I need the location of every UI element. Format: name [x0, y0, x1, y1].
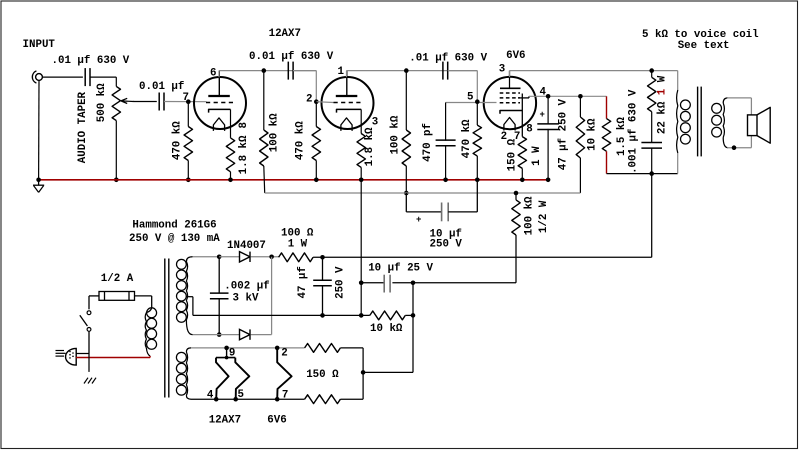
label C2 value — [139, 81, 184, 93]
label See text — [678, 40, 730, 52]
resistor R7 1.8 kOhm cathode V1b — [357, 109, 365, 179]
label fuse 1/2 A — [101, 273, 134, 285]
capacitor C7 .001 uf 630 V snubber — [641, 143, 662, 174]
label C8 3 kV — [233, 293, 259, 305]
wire humdinger to bias node — [363, 371, 413, 373]
label C7 value — [628, 89, 640, 174]
node INPUT label — [23, 39, 56, 51]
label 150 Ohm heater — [306, 369, 339, 381]
svg-text:22 kΩ 1 W: 22 kΩ 1 W — [657, 75, 669, 134]
wire C3 to V1b grid — [293, 71, 316, 102]
junction pin2 heater — [275, 346, 280, 351]
plate V2 — [500, 71, 521, 89]
junction 6V6 grid node — [475, 99, 480, 104]
svg-text:47 μf 250 V: 47 μf 250 V — [558, 98, 570, 170]
label C11 250 V — [430, 239, 463, 251]
wire D1 to B+ junction — [251, 256, 279, 258]
junction R8-ground — [475, 178, 480, 183]
wire CT rail — [193, 314, 370, 316]
svg-text:5: 5 — [467, 92, 473, 104]
junction R4-ground — [228, 178, 233, 183]
label R15 10 kOhm — [370, 323, 403, 335]
resistor R9 150 Ohm cathode 6V6 — [518, 94, 526, 180]
svg-text:10 μf 25 V: 10 μf 25 V — [368, 263, 433, 275]
svg-text:8: 8 — [526, 124, 532, 136]
wire secondary bottom to speaker — [727, 136, 751, 148]
label C6 plus — [540, 110, 545, 120]
connector J1 input jack — [32, 71, 42, 83]
label C6 47 uf 250 V — [558, 98, 570, 170]
plug P1 AC mains — [56, 348, 77, 365]
label 5 kOhm to voice coil — [642, 29, 759, 41]
svg-text:1.8 kΩ: 1.8 kΩ — [238, 135, 250, 174]
wire plug hot (black cord) — [76, 353, 89, 355]
diode D2 1N4007 — [240, 329, 251, 339]
wire secondary top to speaker — [727, 98, 751, 115]
label C9 250 V — [335, 266, 347, 299]
label R9 1 W — [531, 146, 543, 166]
label pin 5 V2 — [467, 92, 473, 104]
resistor R11 1.5 kOhm screen dropping (red leads) — [602, 96, 610, 173]
junction C5-ground — [443, 178, 448, 183]
wiper arrow R1 — [121, 98, 134, 103]
svg-text:10 kΩ: 10 kΩ — [586, 118, 598, 151]
wire 6V6 plate to rail — [509, 71, 511, 77]
junction C6-ground — [546, 178, 551, 183]
svg-text:1.8 kΩ: 1.8 kΩ — [364, 127, 376, 166]
svg-text:3: 3 — [499, 64, 505, 76]
junction R10 top — [578, 94, 583, 99]
junction pin7 — [275, 397, 280, 402]
label pin 5 heater — [238, 389, 244, 401]
junction humdinger center — [361, 370, 366, 375]
junction pin5 — [233, 397, 238, 402]
label C1 value — [52, 55, 130, 67]
transformer T1 core — [165, 259, 169, 398]
wire R17 to center — [340, 372, 363, 399]
label R14 1 W — [288, 239, 308, 251]
svg-text:6V6: 6V6 — [506, 50, 525, 62]
label C11 10 uf — [430, 229, 462, 241]
wire R16 to center — [340, 348, 363, 373]
wire grid node into V1b — [316, 101, 333, 104]
junction .002 top — [217, 254, 222, 259]
svg-text:100 kΩ: 100 kΩ — [268, 113, 280, 152]
transformer T1 filament winding — [176, 348, 191, 399]
chassis ground symbol — [83, 378, 97, 384]
svg-text:See text: See text — [678, 40, 730, 52]
transformer T1 HV secondary — [177, 257, 193, 335]
label pin 4 V2 — [540, 87, 547, 99]
svg-text:6V6: 6V6 — [267, 415, 286, 427]
wire C1 to pot top — [90, 77, 116, 86]
junction R15 node — [411, 313, 416, 318]
diode D1 1N4007 — [240, 252, 251, 262]
svg-text:10 kΩ: 10 kΩ — [370, 323, 403, 335]
wire R15 to node — [405, 314, 413, 316]
junction secondary bottom — [732, 145, 737, 150]
wire C2 to V1a grid — [164, 101, 207, 103]
junction R2-ground — [186, 178, 191, 183]
label pin 4 heater — [207, 390, 214, 402]
resistor R12 22 kOhm 1 W snubber — [648, 71, 656, 143]
svg-text:470 kΩ: 470 kΩ — [461, 119, 473, 158]
junction pin4 — [214, 397, 219, 402]
label pin 2 V1b — [306, 93, 312, 105]
svg-text:.001 μf 630 V: .001 μf 630 V — [628, 89, 640, 174]
wire HV top lead — [193, 256, 220, 258]
resistor R4 1.8 kOhm cathode V1a — [226, 109, 234, 179]
resistor R17 150 Ohm humdinger bottom — [305, 395, 341, 404]
label C8 .002 uf — [224, 281, 269, 293]
wire heater top lead — [191, 347, 305, 349]
label C3 value — [249, 51, 334, 63]
screen wire V2 — [518, 96, 529, 98]
junction R7-ground — [359, 178, 364, 183]
junction R12 top — [649, 68, 654, 73]
svg-text:1 W: 1 W — [288, 239, 308, 251]
junction pot-ground — [114, 178, 119, 183]
svg-text:100 kΩ: 100 kΩ — [389, 115, 401, 154]
wire HV top to D1 — [219, 256, 239, 258]
svg-text:250 V @ 130 mA: 250 V @ 130 mA — [129, 233, 220, 245]
svg-text:AUDIO TAPER: AUDIO TAPER — [77, 91, 89, 163]
label R10 10 kOhm — [586, 118, 598, 151]
svg-text:250 V: 250 V — [335, 266, 347, 299]
svg-text:INPUT: INPUT — [23, 39, 56, 51]
wire B+ to OPT bottom — [607, 173, 678, 175]
label R3 100 kOhm — [268, 113, 280, 152]
transformer T2 core — [698, 87, 702, 157]
wire pot to ground bus — [115, 121, 117, 180]
wire plug neutral (red cord) — [76, 357, 150, 359]
resistor R16 150 Ohm humdinger top — [305, 344, 341, 353]
resistor R5 470 kOhm grid leak V1b — [312, 102, 320, 180]
label C11 plus — [416, 215, 421, 225]
junction V1b grid node — [314, 99, 319, 104]
resistor R6 100 kOhm plate load V1b — [402, 71, 410, 193]
label pin 9 — [229, 348, 235, 360]
junction C7 bottom / B+ node — [649, 171, 654, 176]
fuse F1 1/2 A — [89, 292, 152, 301]
wire ground drop — [360, 180, 362, 316]
label pin 6 V1a — [210, 67, 216, 79]
svg-text:6: 6 — [210, 67, 216, 79]
junction 100k half W top — [514, 191, 519, 196]
svg-text:250 V: 250 V — [430, 239, 463, 251]
label pin 3 V2 — [499, 64, 505, 76]
wire jack to ground — [38, 80, 40, 179]
svg-text:1.5 kΩ: 1.5 kΩ — [616, 117, 628, 156]
heater V1a hat — [213, 118, 224, 131]
junction R3 top — [262, 68, 267, 73]
svg-text:.01 μf 630 V: .01 μf 630 V — [52, 55, 130, 67]
svg-text:1/2 A: 1/2 A — [101, 273, 134, 285]
label R2 470 kOhm — [172, 121, 184, 160]
label R12 22 kOhm 1 W — [657, 75, 669, 134]
wire screen line — [529, 95, 607, 97]
wire 6V6 grid — [446, 102, 497, 104]
svg-text:100 kΩ: 100 kΩ — [524, 196, 536, 235]
heater V2 hat — [504, 118, 515, 131]
label pin 2 V2 heater — [501, 131, 507, 143]
junction C10 right — [411, 281, 416, 286]
wire rail A (preamp B+) — [265, 192, 581, 194]
wire D2 to riser — [251, 334, 272, 336]
tube V1b 12AX7 section B — [322, 71, 374, 129]
junction R9-ground — [520, 178, 525, 183]
screen grid V2 dashes — [500, 93, 520, 98]
label R11 1.5 kOhm — [616, 117, 628, 156]
label R9 150 Ohm — [506, 138, 518, 171]
junction C6 top — [546, 94, 551, 99]
transformer T2 OPT primary — [677, 71, 691, 174]
junction C9 bottom — [320, 313, 325, 318]
capacitor C9 47 uf 250 V main filter — [313, 257, 332, 315]
svg-text:150 Ω: 150 Ω — [306, 369, 339, 381]
label 6V6 (top) — [506, 50, 525, 62]
svg-text:0.01 μf: 0.01 μf — [139, 81, 184, 93]
junction V1a grid node A — [186, 99, 191, 104]
junction pin9 — [224, 346, 229, 351]
svg-text:3 kV: 3 kV — [233, 293, 259, 305]
capacitor C8 .002 uf 3 kV — [210, 257, 229, 335]
wire B+ main — [313, 256, 652, 258]
capacitor C4 .01 uf 630 V coupling — [443, 62, 448, 80]
label R14 100 Ohm — [281, 228, 314, 240]
label pin 7 V1a — [183, 92, 189, 104]
label 12AX7 (top) — [269, 28, 301, 40]
svg-text:+: + — [416, 215, 421, 225]
label R13 1/2 W — [538, 200, 550, 233]
svg-text:9: 9 — [229, 348, 235, 360]
label C9 47 uf — [297, 266, 309, 298]
capacitor C2 0.01 uf — [159, 93, 164, 111]
junction C10 left — [359, 281, 364, 286]
wire rectifier riser — [271, 257, 273, 335]
svg-text:47 μf: 47 μf — [297, 266, 309, 298]
resistor R3 100 kOhm plate load V1a — [260, 71, 268, 193]
label pin 2 heater bottom — [281, 348, 287, 360]
label pin 8 V2 — [526, 124, 532, 136]
svg-text:150 Ω: 150 Ω — [506, 138, 518, 171]
junction C9 top — [320, 255, 325, 260]
tube V2 6V6 envelope — [484, 77, 536, 129]
junction rectifier output — [269, 254, 274, 259]
label pin 3 V1b — [372, 117, 378, 129]
wire grid node to R2 — [0, 0, 1, 1]
capacitor C11 10 uf 250 V decoupling — [406, 180, 477, 222]
wire jack to C1 — [42, 76, 83, 78]
svg-text:1: 1 — [338, 66, 345, 78]
ground symbol — [33, 180, 44, 193]
wire plate rail 1 — [219, 70, 316, 72]
label 6V6 bottom — [267, 415, 286, 427]
junction .002 bottom — [217, 332, 222, 337]
label C5 470 pf — [422, 123, 434, 162]
wire C4 to 6V6 grid — [448, 71, 478, 102]
wire HV bottom lead — [193, 334, 240, 336]
label R8 470 kOhm — [461, 119, 473, 158]
label C10 10 uf 25 V — [368, 263, 433, 275]
label R5 470 kOhm — [294, 121, 306, 160]
resistor R8 470 kOhm grid leak 6V6 — [473, 102, 481, 180]
cathode V1b bracket — [337, 109, 362, 112]
svg-text:0.01 μf 630 V: 0.01 μf 630 V — [249, 51, 334, 63]
transformer T1 primary — [145, 296, 156, 358]
wire heater bottom lead — [191, 398, 305, 400]
capacitor C5 470 pf — [436, 103, 456, 180]
ground bus (red) — [39, 179, 548, 181]
label C4 value — [409, 53, 487, 65]
heater 6V6 symbol — [277, 348, 291, 399]
label R7 1.8 kOhm — [364, 127, 376, 166]
label pin 8 V1a (rotated) — [238, 122, 250, 128]
switch S1 — [80, 296, 91, 354]
resistor R10 10 kOhm screen feed — [576, 96, 584, 193]
cathode V1a bracket — [209, 109, 231, 112]
svg-text:2: 2 — [306, 93, 312, 105]
resistor R13 100 kOhm 1/2 W decoupling — [512, 193, 520, 283]
svg-text:8: 8 — [238, 122, 250, 128]
label pin 1 V1b — [338, 66, 345, 78]
wire B+ riser — [651, 174, 653, 258]
svg-text:1 W: 1 W — [531, 146, 543, 166]
cathode V2 bracket — [500, 111, 522, 114]
svg-text:1N4007: 1N4007 — [227, 240, 266, 252]
svg-text:Hammond 261G6: Hammond 261G6 — [132, 220, 216, 232]
svg-text:.01 μf 630 V: .01 μf 630 V — [409, 53, 487, 65]
wire V1a plate to rail — [218, 71, 220, 78]
wire wiper to C2 — [134, 100, 157, 103]
svg-text:2: 2 — [281, 348, 287, 360]
heater V1b hat — [341, 118, 352, 131]
resistor R2 470 kOhm grid leak V1a — [184, 102, 192, 180]
heater 12AX7 symbol — [216, 348, 249, 399]
resistor R14 100 Ohm 1 W filter — [279, 253, 314, 262]
wire bias node riser — [412, 283, 414, 373]
wire plate rail 3 (to OPT) — [510, 70, 678, 72]
capacitor C6 47 uf 250 V cathode bypass — [537, 96, 559, 180]
svg-text:3: 3 — [372, 117, 378, 129]
label AUDIO TAPER — [77, 91, 89, 163]
svg-text:12AX7: 12AX7 — [209, 415, 241, 427]
label Hammond 261G6 — [132, 220, 216, 232]
svg-text:+: + — [540, 110, 545, 120]
junction R6-railA — [404, 191, 409, 196]
svg-text:12AX7: 12AX7 — [269, 28, 301, 40]
label pin 7 heater bottom — [282, 390, 288, 402]
svg-text:500 kΩ: 500 kΩ — [96, 83, 108, 122]
junction R5-ground — [314, 178, 319, 183]
label pin 7 V2 heater — [514, 131, 520, 143]
label 500 kOhm — [96, 83, 108, 122]
tube V1a 12AX7 section A — [194, 71, 246, 129]
svg-text:1/2 W: 1/2 W — [538, 200, 550, 233]
junction jack-ground — [36, 178, 41, 183]
transformer T2 secondary — [712, 98, 728, 148]
svg-text:470 kΩ: 470 kΩ — [294, 121, 306, 160]
svg-text:470 pf: 470 pf — [422, 123, 434, 162]
speaker LS1 — [748, 107, 771, 143]
resistor R15 10 kOhm back bias — [370, 311, 406, 320]
wire switch to chassis — [88, 354, 90, 372]
potentiometer R1 500 kOhm audio taper — [112, 86, 120, 120]
center tap T1 — [186, 297, 193, 316]
label 12AX7 bottom — [209, 415, 241, 427]
label R13 100 kOhm — [524, 196, 536, 235]
junction ground drop bottom — [359, 313, 364, 318]
junction R6 top — [404, 68, 409, 73]
capacitor C3 0.01 uf 630 V coupling — [288, 62, 293, 80]
label 250 V at 130 mA — [129, 233, 220, 245]
label R4 1.8 kOhm — [238, 135, 250, 174]
capacitor C1 .01 uf 630 V — [85, 68, 90, 86]
control grid V2 dashes — [500, 102, 520, 104]
wire plate rail 2 — [347, 70, 478, 72]
capacitor C10 10 uf 25 V — [361, 275, 516, 293]
svg-text:.002 μf: .002 μf — [224, 281, 269, 293]
label 1N4007 — [227, 240, 266, 252]
svg-text:470 kΩ: 470 kΩ — [172, 121, 184, 160]
wire V1b plate to rail — [346, 71, 348, 78]
label R6 100 kOhm — [389, 115, 401, 154]
